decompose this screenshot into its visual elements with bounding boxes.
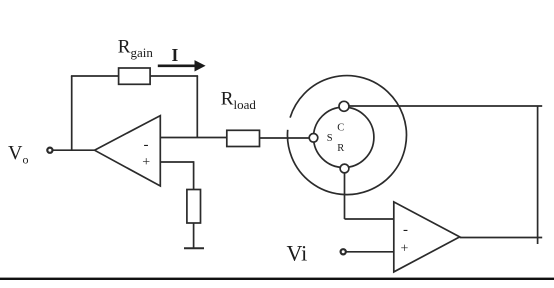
node Vi terminal [341, 249, 346, 254]
svg-text:S: S [327, 133, 333, 144]
wire [344, 173, 346, 219]
wire [193, 223, 195, 248]
op-amp U2 [394, 202, 460, 272]
svg-text:-: - [403, 222, 408, 238]
svg-text:C: C [337, 123, 344, 134]
svg-text:+: + [142, 155, 150, 170]
svg-text:I: I [172, 45, 179, 65]
wire [160, 161, 193, 163]
svg-text:Rgain: Rgain [118, 36, 154, 60]
wire [196, 76, 198, 138]
node C terminal [339, 101, 349, 111]
wire [53, 149, 95, 151]
outer circle (with gap upper-left) [287, 76, 406, 195]
op-amp U1 [95, 116, 161, 186]
svg-text:+: + [401, 241, 409, 256]
wire [349, 105, 543, 107]
wire [71, 75, 119, 77]
resistor Rgain [119, 68, 151, 84]
ground [184, 247, 204, 249]
wire [193, 161, 195, 189]
wire [160, 137, 227, 139]
wire [537, 106, 539, 244]
current arrow I [158, 61, 205, 71]
resistor Rload [227, 130, 260, 146]
wire [150, 75, 198, 77]
node Vo terminal [47, 148, 52, 153]
node S terminal [309, 134, 318, 143]
svg-text:Vo: Vo [8, 142, 28, 167]
resistor R3 [187, 190, 201, 224]
svg-text:Vi: Vi [287, 241, 308, 266]
wire [71, 76, 73, 150]
wire [346, 251, 393, 253]
wire [345, 218, 394, 220]
wire [460, 237, 543, 239]
svg-text:-: - [144, 137, 149, 153]
svg-text:R: R [337, 143, 344, 154]
wire [260, 137, 310, 139]
svg-text:Rload: Rload [221, 88, 257, 112]
inner circle [314, 107, 374, 167]
node R terminal [340, 164, 349, 173]
